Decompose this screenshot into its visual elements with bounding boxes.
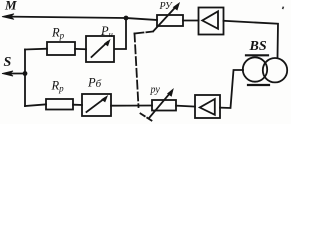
wire to top Rp <box>25 48 47 51</box>
wire RU top to amp <box>183 20 199 22</box>
wire RU bottom to amp <box>176 105 195 108</box>
resistor Pb (variable) <box>82 94 111 116</box>
amplifier U1 triangle <box>202 11 218 29</box>
amplifier U1 box <box>199 8 224 35</box>
wire S line <box>8 73 25 75</box>
wire from top junction down to Pn output <box>115 18 127 49</box>
node left junction <box>23 71 28 76</box>
dashed mechanical link vertical <box>135 34 139 108</box>
svg-text:Рн: Рн <box>100 24 113 39</box>
arrowhead M <box>2 14 14 20</box>
wire amp to corner right <box>224 21 279 58</box>
wire bottom Rp to Pb <box>73 104 82 106</box>
arrow inside Pb <box>87 99 105 113</box>
svg-text:Rр: Rр <box>51 26 65 41</box>
wire amp2 to transformer <box>220 70 243 108</box>
transformer BS left circle <box>243 57 267 81</box>
amplifier U2 box <box>195 95 220 118</box>
wire left vertical bus <box>24 50 26 107</box>
dashed link bottom diagonal <box>141 114 152 121</box>
attenuator RU (top) <box>157 15 183 26</box>
wire Pb to RU bottom <box>111 105 152 107</box>
arrow inside Pn <box>92 42 108 57</box>
resistor Rp (bottom) <box>46 99 73 110</box>
arrow through RU top <box>154 6 177 31</box>
svg-text:Рб: Рб <box>87 76 102 90</box>
svg-text:ВS: ВS <box>249 39 267 54</box>
svg-text:Rр: Rр <box>51 79 65 94</box>
speck top right <box>282 6 284 9</box>
wire bottom from bus to Rp <box>25 104 46 106</box>
transformer BS right circle <box>263 58 287 82</box>
attenuator RU (bottom) <box>152 100 176 111</box>
svg-text:М: М <box>4 0 17 12</box>
dashed link top horizontal <box>135 32 154 34</box>
node top junction <box>124 16 129 21</box>
svg-text:ру: ру <box>150 85 161 96</box>
arrowhead S <box>2 71 13 76</box>
transformer bottom bar <box>248 84 269 86</box>
svg-text:РУ: РУ <box>159 1 173 12</box>
resistor Rp (top) <box>47 42 75 55</box>
resistor Pn (variable) <box>86 36 114 62</box>
wire top Rp to Pn <box>75 48 86 50</box>
transformer top bar <box>246 54 268 56</box>
arrow through RU bottom <box>150 93 171 118</box>
svg-text:S: S <box>4 55 12 70</box>
wire M line (top horizontal) <box>10 17 157 20</box>
amplifier U2 triangle <box>200 99 215 115</box>
